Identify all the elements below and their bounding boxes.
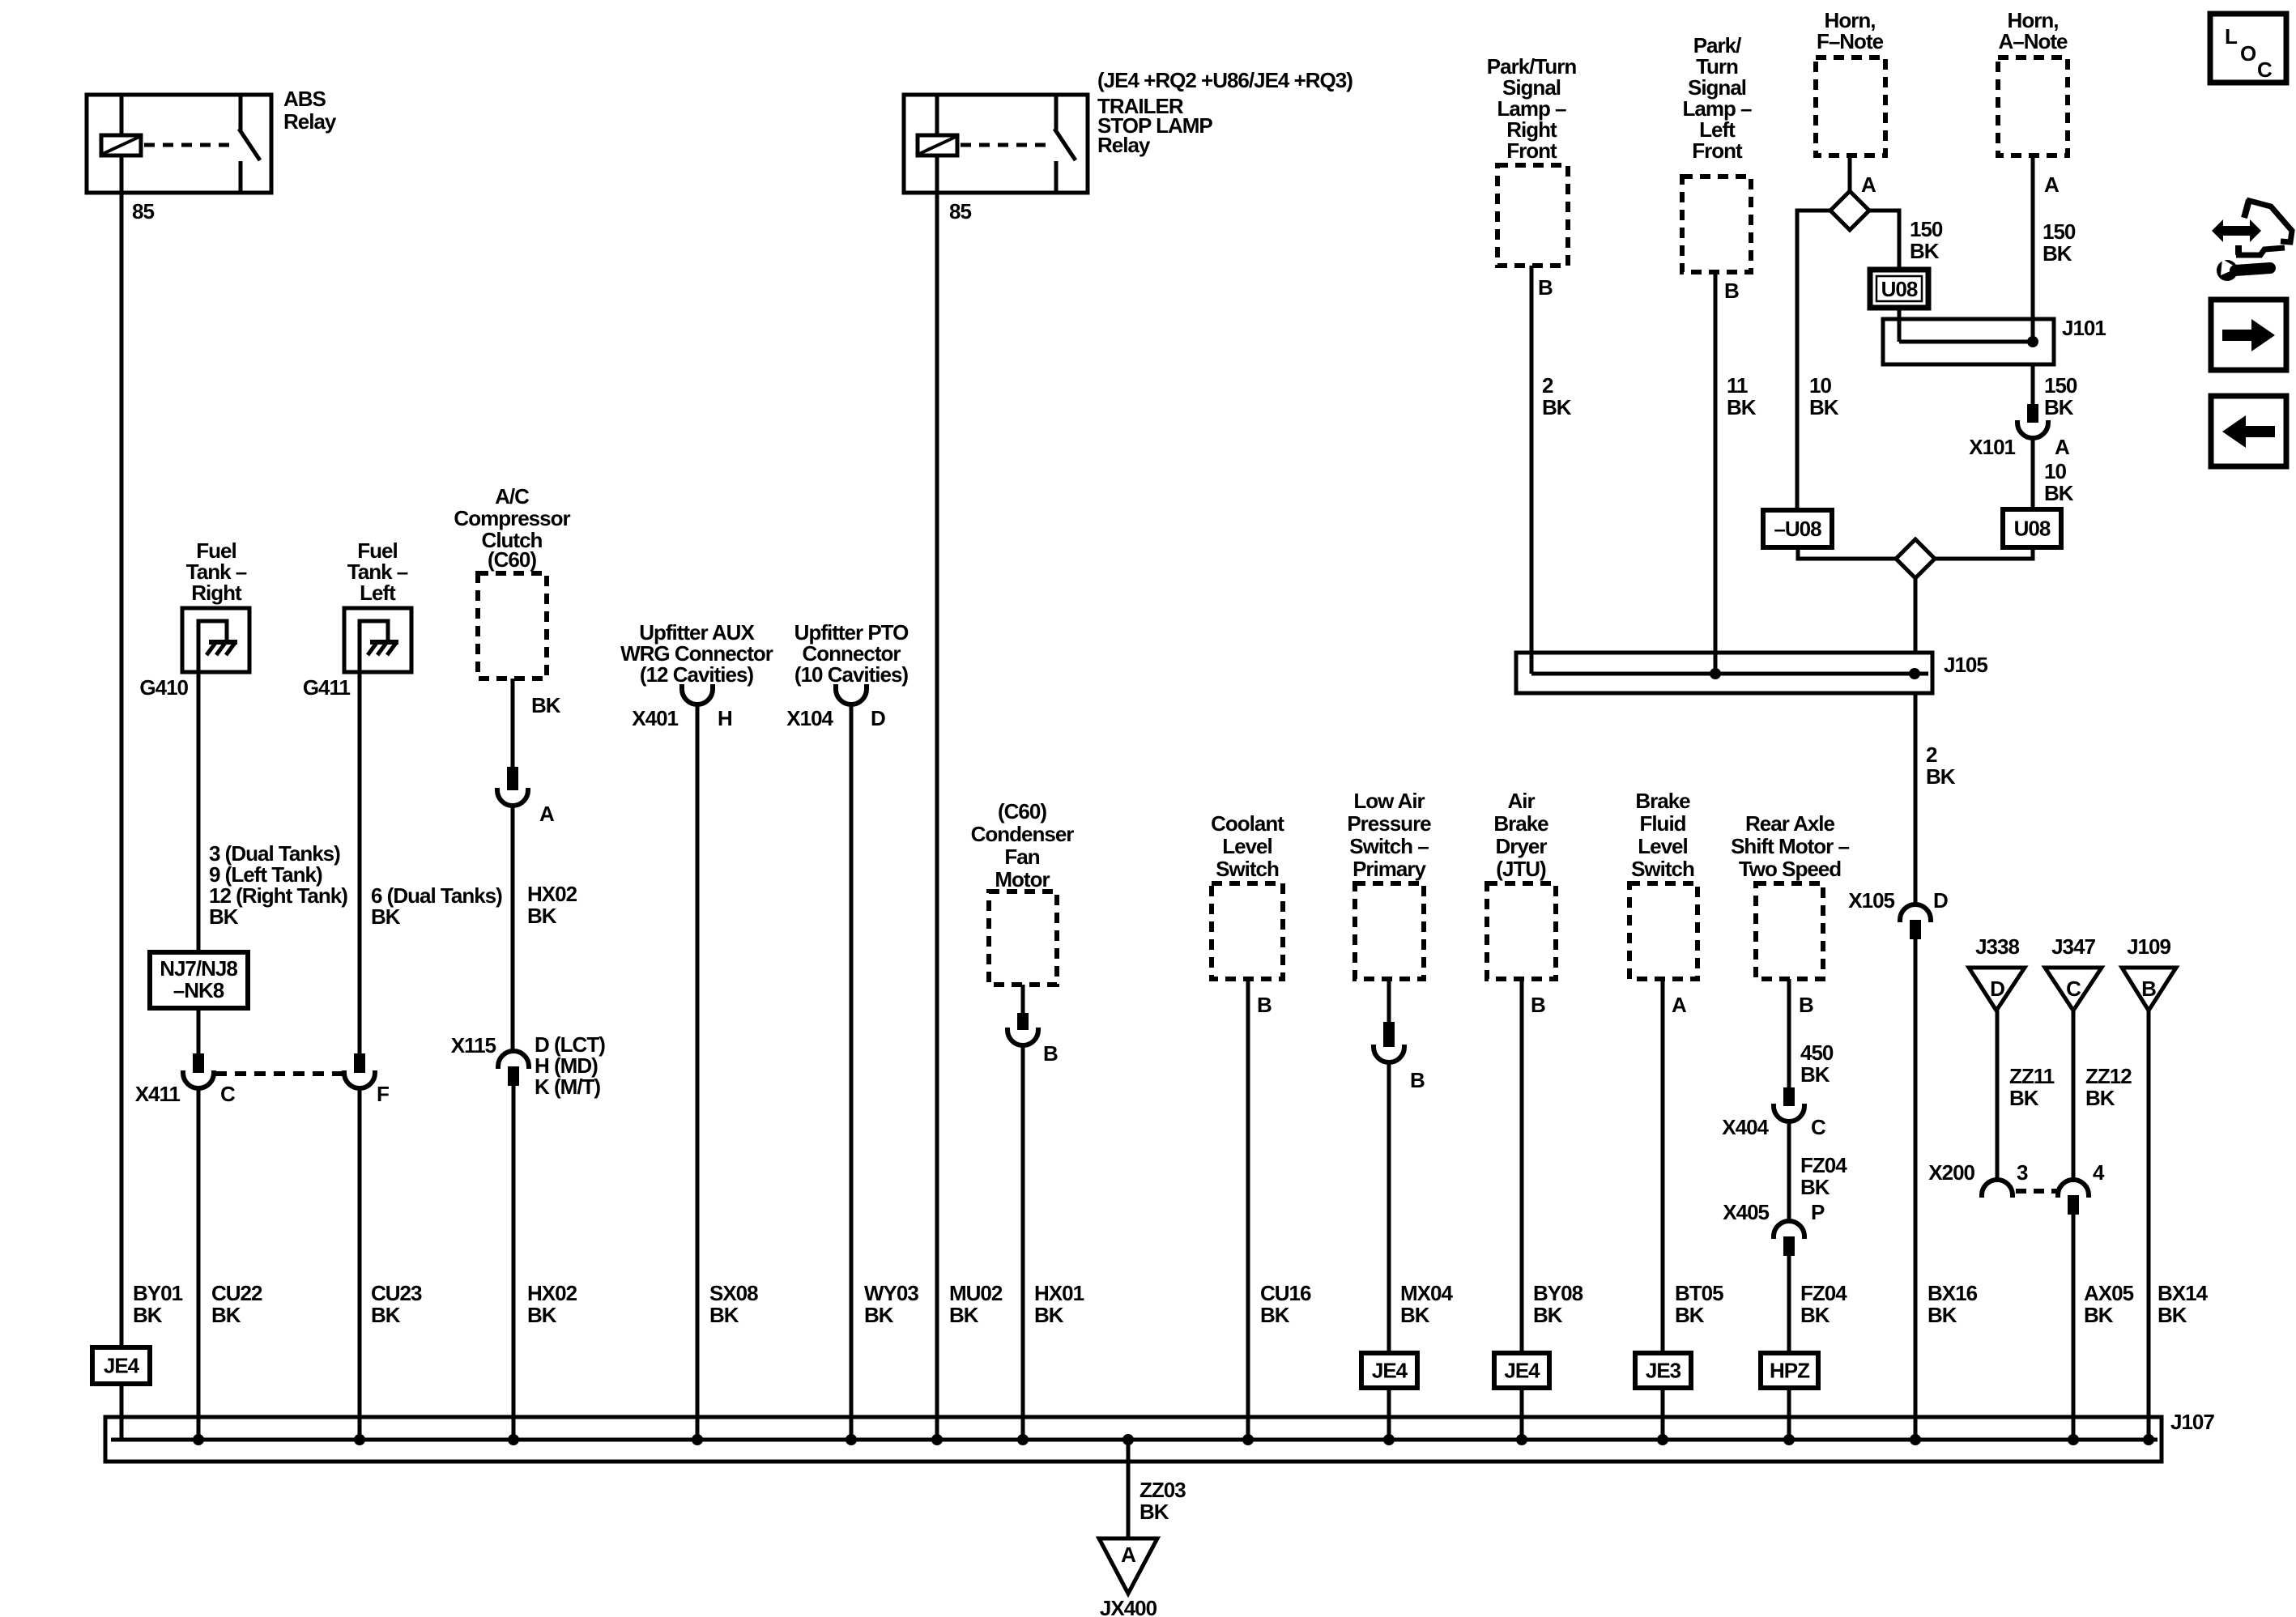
wire BY01 from ABS relay pin 85 to JE4 splice	[120, 193, 124, 1347]
wire 10 BK from diamond to -U08	[1797, 211, 1830, 510]
wire from diamond 2 to J105	[1914, 578, 1918, 653]
component park/turn left front dashed box	[1682, 177, 1751, 272]
wire BX16 from X105 to bus J107	[1914, 939, 1918, 1440]
svg-text:150: 150	[1910, 217, 1943, 241]
ground bus J107 internal bus	[111, 1438, 2158, 1442]
svg-text:BK: BK	[2044, 395, 2074, 419]
svg-text:10: 10	[2044, 459, 2066, 483]
svg-text:Left: Left	[360, 581, 396, 605]
svg-text:JE4: JE4	[1504, 1359, 1540, 1383]
junction dot on J105 (left front lamp)	[1710, 668, 1721, 679]
wire CU16 from coolant switch to bus J107	[1246, 979, 1250, 1440]
relay K ABS coil	[101, 135, 141, 155]
svg-text:Primary: Primary	[1352, 857, 1426, 881]
wire CU23 from G411 to connector X411-F	[358, 672, 362, 1053]
wire HX01 from connector B to bus J107	[1021, 1045, 1025, 1440]
svg-text:Relay: Relay	[283, 109, 337, 134]
svg-text:BX14: BX14	[2158, 1281, 2209, 1305]
svg-text:A: A	[1121, 1543, 1136, 1567]
svg-text:Rear Axle: Rear Axle	[1745, 811, 1835, 836]
svg-text:BK: BK	[209, 904, 239, 929]
connector X404 female arc	[1774, 1104, 1804, 1121]
wire 11 BK from left front lamp to J105	[1714, 272, 1718, 674]
wire from U08 to splice diamond 2	[1935, 547, 2033, 559]
svg-text:X200: X200	[1928, 1160, 1974, 1185]
svg-text:X101: X101	[1969, 435, 2015, 459]
junction dot on J107 at x=1393	[1122, 1434, 1134, 1445]
relay K ABS actuation dashed link	[144, 143, 233, 147]
svg-text:BK: BK	[1910, 239, 1940, 263]
wire 2 BK from J105 to X105	[1914, 693, 1918, 905]
svg-text:450: 450	[1800, 1040, 1834, 1065]
svg-text:150: 150	[2044, 373, 2077, 398]
connector clutch cavity A female arc	[497, 788, 528, 806]
wire FZ04 from X404 to X405	[1787, 1121, 1791, 1222]
svg-text:X105: X105	[1848, 888, 1894, 913]
svg-text:BK: BK	[2009, 1086, 2039, 1110]
svg-text:A: A	[1672, 993, 1687, 1017]
option box U08 (A-note branch)	[2003, 509, 2061, 547]
wire BT05 from switch to JE3	[1661, 979, 1665, 1353]
svg-text:D: D	[1990, 977, 2004, 1001]
svg-text:O: O	[2240, 41, 2256, 66]
svg-text:Front: Front	[1506, 138, 1557, 163]
svg-text:B: B	[1531, 993, 1545, 1017]
in-line harness JX400 triangle	[1099, 1538, 1157, 1594]
svg-text:ZZ03: ZZ03	[1139, 1478, 1186, 1502]
splice pack J101 internal bus	[1899, 340, 2031, 344]
svg-text:Dryer: Dryer	[1496, 834, 1548, 858]
svg-text:BK: BK	[1800, 1303, 1830, 1327]
svg-text:BX16: BX16	[1928, 1281, 1978, 1305]
wire WY03 from X104 to bus J107	[850, 703, 854, 1440]
relay K ABS outer box	[87, 95, 271, 193]
svg-text:C: C	[1811, 1115, 1826, 1139]
svg-text:BK: BK	[709, 1303, 739, 1327]
connector X104 ring cavity D	[836, 684, 867, 704]
svg-text:B: B	[1257, 993, 1272, 1017]
svg-text:NJ7/NJ8: NJ7/NJ8	[160, 956, 237, 981]
junction dot on J107 at x=1715	[1383, 1434, 1395, 1445]
svg-text:X104: X104	[786, 706, 833, 730]
svg-text:JE4: JE4	[1372, 1359, 1408, 1383]
junction dot on J107 at x=2560	[2068, 1434, 2079, 1445]
svg-text:C: C	[2257, 57, 2273, 82]
relay K trailer switch lower pin	[1054, 161, 1059, 193]
svg-text:Switch: Switch	[1631, 857, 1694, 881]
svg-text:X404: X404	[1722, 1115, 1769, 1139]
junction dot on J107 at x=1051	[846, 1434, 857, 1445]
svg-text:BK: BK	[1675, 1303, 1705, 1327]
svg-text:Shift Motor –: Shift Motor –	[1731, 834, 1849, 858]
svg-text:Relay: Relay	[1097, 133, 1151, 157]
wire BY08 from dryer to JE4	[1520, 979, 1524, 1353]
junction dot on J107 at x=2365	[1910, 1434, 1921, 1445]
wire 150 BK from J101 to X101	[2031, 364, 2035, 404]
svg-text:–U08: –U08	[1774, 517, 1821, 541]
relay K trailer stop lamp outer box	[904, 95, 1088, 193]
component horn A-note dashed box	[1998, 57, 2068, 155]
wire from -U08 to splice diamond 2	[1798, 547, 1896, 559]
ground G411 symbol	[360, 621, 388, 670]
svg-text:WY03: WY03	[864, 1281, 918, 1305]
svg-text:F: F	[377, 1082, 389, 1106]
wire AX05 from X200 to bus J107	[2072, 1215, 2076, 1440]
svg-text:D: D	[1933, 888, 1948, 913]
svg-text:FZ04: FZ04	[1800, 1153, 1847, 1177]
svg-text:BK: BK	[1926, 764, 1956, 789]
junction dot on J107 at x=1541	[1242, 1434, 1254, 1445]
svg-text:A: A	[1861, 172, 1876, 197]
wire FZ04 from HPZ to bus J107	[1787, 1388, 1791, 1440]
svg-text:J109: J109	[2127, 934, 2170, 959]
svg-text:BK: BK	[949, 1303, 979, 1327]
junction dot on J107 at x=2053	[1657, 1434, 1668, 1445]
splice package JE4 (on BY08)	[1494, 1353, 1549, 1388]
svg-text:BK: BK	[2084, 1303, 2114, 1327]
svg-text:BK: BK	[1400, 1303, 1430, 1327]
wire 2 BK from right front lamp to J105	[1530, 266, 1534, 674]
wire HX01 from fan motor to connector B	[1021, 985, 1025, 1013]
wire CU22 from NJ7 box to connector X411-C	[197, 1008, 201, 1053]
splice package JE4 (on BY01)	[92, 1347, 150, 1384]
svg-text:Level: Level	[1638, 834, 1688, 858]
connector X200 cavity 3 female arc	[1982, 1180, 2013, 1198]
relay K ABS switch upper pin	[239, 95, 243, 130]
splice diamond (horn F-note)	[1830, 191, 1869, 230]
icon repair double arrow	[2212, 219, 2261, 242]
svg-text:3: 3	[2017, 1160, 2028, 1185]
connector X200 dashed gang line	[2016, 1189, 2057, 1194]
connector X101 female arc	[2017, 420, 2048, 438]
svg-text:C: C	[2066, 977, 2081, 1001]
relay K ABS switch lower pin	[239, 161, 243, 193]
svg-text:X401: X401	[632, 706, 678, 730]
svg-text:P: P	[1811, 1200, 1825, 1224]
relay K trailer coil lower pin	[935, 155, 939, 193]
component park/turn right front dashed box	[1497, 165, 1568, 266]
svg-text:C: C	[220, 1082, 236, 1106]
svg-text:X411: X411	[135, 1082, 181, 1106]
svg-text:FZ04: FZ04	[1800, 1281, 1847, 1305]
relay K ABS coil lower pin	[120, 155, 124, 193]
svg-text:BK: BK	[2044, 481, 2074, 505]
svg-text:BK: BK	[1139, 1500, 1169, 1524]
connector X411 cavity C female arc	[183, 1070, 214, 1088]
ground G410 box (Fuel Tank - Right)	[182, 608, 249, 672]
component A/C compressor clutch dashed box	[478, 573, 547, 679]
junction dot on J107 at x=1263	[1017, 1434, 1029, 1445]
option box U08 (F-note branch)	[1870, 270, 1928, 308]
svg-text:BK: BK	[1800, 1062, 1830, 1087]
connector fan cavity B female arc	[1007, 1028, 1038, 1045]
svg-text:BK: BK	[2043, 241, 2072, 266]
in-line harness J338 triangle	[1969, 968, 2025, 1011]
wire MX04 from connector to JE4	[1387, 1062, 1391, 1353]
in-line harness J347 triangle	[2045, 968, 2102, 1011]
svg-text:(C60): (C60)	[998, 799, 1046, 823]
svg-text:(JTU): (JTU)	[1496, 857, 1546, 881]
connector low-air cavity B male tick	[1383, 1022, 1395, 1047]
junction dot on J107 at x=1157	[931, 1434, 943, 1445]
svg-text:Low Air: Low Air	[1353, 789, 1425, 813]
option box NJ7/NJ8 -NK8	[150, 952, 248, 1008]
icon back arrow	[2222, 415, 2275, 448]
svg-text:150: 150	[2043, 219, 2076, 244]
svg-text:B: B	[1043, 1041, 1058, 1066]
splice diamond 2 (horn ground)	[1896, 539, 1935, 578]
wire SX08 from X401 to bus J107	[696, 703, 700, 1440]
component brake fluid level switch dashed box	[1629, 883, 1698, 979]
svg-text:BK: BK	[1809, 395, 1839, 419]
svg-text:Brake: Brake	[1493, 811, 1548, 836]
splice pack J101 box	[1883, 319, 2054, 364]
svg-text:B: B	[1799, 993, 1813, 1017]
wire 10 BK from X101 to U08	[2031, 438, 2035, 509]
svg-text:CU23: CU23	[371, 1281, 422, 1305]
svg-text:HX02: HX02	[527, 1281, 577, 1305]
svg-text:2: 2	[1926, 743, 1937, 767]
ground G410 symbol	[198, 621, 227, 670]
wire FZ04 from X405 to HPZ	[1787, 1256, 1791, 1353]
svg-text:85: 85	[132, 199, 154, 223]
svg-text:BK: BK	[527, 1303, 557, 1327]
svg-text:Air: Air	[1507, 789, 1535, 813]
svg-text:Fan: Fan	[1004, 845, 1039, 869]
wire HX02 from connector A to X115	[511, 806, 515, 1052]
svg-text:BK: BK	[1928, 1303, 1957, 1327]
junction dot on J105 (horn feed)	[1909, 668, 1920, 679]
svg-text:(12 Cavities): (12 Cavities)	[640, 662, 754, 687]
connector X200 cavity 4 male tick	[2068, 1195, 2079, 1215]
component condenser fan motor dashed box	[989, 891, 1057, 985]
svg-text:X115: X115	[451, 1033, 496, 1057]
svg-text:CU16: CU16	[1260, 1281, 1311, 1305]
splice package JE3 (on BT05)	[1635, 1353, 1691, 1388]
svg-text:Motor: Motor	[995, 867, 1050, 891]
connector X401 ring cavity H	[682, 684, 713, 704]
svg-text:BK: BK	[2158, 1303, 2187, 1327]
connector X115 female arc	[498, 1051, 529, 1069]
svg-text:BK: BK	[371, 1303, 401, 1327]
svg-text:A: A	[2044, 172, 2060, 197]
option box -U08	[1763, 510, 1832, 547]
wire HX02 from X115 to bus J107	[512, 1086, 516, 1440]
svg-text:10: 10	[1809, 373, 1831, 398]
connector X405 female arc	[1774, 1221, 1804, 1239]
svg-text:SX08: SX08	[709, 1281, 758, 1305]
svg-text:BT05: BT05	[1675, 1281, 1723, 1305]
svg-text:G411: G411	[303, 675, 351, 700]
svg-text:Brake: Brake	[1635, 789, 1690, 813]
relay K trailer coil pin wire	[935, 95, 939, 135]
svg-text:U08: U08	[1881, 277, 1918, 301]
wire CU23 from X411 to bus J107	[358, 1088, 362, 1440]
junction dot on J107 at x=861	[692, 1434, 703, 1445]
svg-text:BK: BK	[2085, 1086, 2115, 1110]
connector X411 cavity C male tick	[193, 1053, 204, 1073]
svg-text:2: 2	[1542, 373, 1553, 398]
svg-text:Pressure: Pressure	[1347, 811, 1431, 836]
svg-text:ABS: ABS	[283, 87, 326, 111]
svg-text:J107: J107	[2170, 1410, 2214, 1434]
splice package JE4 (on MX04)	[1361, 1353, 1417, 1388]
svg-text:BY01: BY01	[133, 1281, 183, 1305]
junction dot on J107 at x=245	[193, 1434, 204, 1445]
svg-text:B: B	[1538, 275, 1553, 300]
relay K trailer coil	[918, 135, 957, 155]
component horn F-note dashed box	[1816, 57, 1885, 155]
svg-text:D: D	[871, 706, 885, 730]
svg-text:85: 85	[949, 199, 971, 223]
svg-text:J347: J347	[2051, 934, 2095, 959]
svg-text:MX04: MX04	[1400, 1281, 1453, 1305]
relay K trailer switch upper pin	[1054, 95, 1059, 130]
svg-text:HX01: HX01	[1034, 1281, 1084, 1305]
svg-text:B: B	[1724, 279, 1739, 303]
svg-text:Two Speed: Two Speed	[1739, 857, 1841, 881]
wire ZZ11 from J338 to X200	[1996, 1011, 2000, 1181]
svg-text:BK: BK	[1800, 1175, 1830, 1199]
relay K trailer actuation dashed link	[961, 143, 1049, 147]
connector X101 male tick	[2027, 404, 2038, 423]
wire HX02 from clutch to connector A	[511, 679, 515, 767]
svg-text:BK: BK	[1727, 395, 1757, 419]
icon repair panel outline	[2244, 200, 2249, 218]
connector X411 cavity F female arc	[344, 1070, 375, 1088]
relay K ABS switch blade	[239, 129, 260, 160]
svg-text:Fluid: Fluid	[1639, 811, 1685, 836]
svg-text:Switch: Switch	[1216, 857, 1279, 881]
svg-text:X405: X405	[1723, 1200, 1769, 1224]
svg-text:A–Note: A–Note	[1998, 29, 2068, 53]
svg-text:(C60): (C60)	[488, 547, 536, 572]
connector X411 dashed gang line	[215, 1071, 343, 1076]
relay K trailer switch blade	[1054, 129, 1076, 160]
icon forward arrow box	[2211, 300, 2286, 370]
wire BY01 from JE4 to ground bus J107	[120, 1384, 124, 1440]
svg-text:MU02: MU02	[949, 1281, 1003, 1305]
svg-text:BK: BK	[1533, 1303, 1563, 1327]
svg-text:BK: BK	[531, 693, 561, 717]
connector low-air cavity B female arc	[1374, 1045, 1404, 1062]
svg-text:H: H	[718, 706, 732, 730]
svg-text:BK: BK	[1034, 1303, 1064, 1327]
svg-text:JE3: JE3	[1646, 1359, 1681, 1383]
svg-text:A: A	[2055, 435, 2070, 459]
svg-text:AX05: AX05	[2084, 1281, 2134, 1305]
junction dot on J107 at x=2209	[1783, 1434, 1795, 1445]
wire from U08 into J101	[1898, 308, 1902, 342]
component rear axle shift motor dashed box	[1756, 883, 1823, 979]
svg-text:JE4: JE4	[104, 1354, 140, 1378]
wire 150 BK from horn A-note to J101	[2031, 155, 2035, 342]
svg-text:Front: Front	[1692, 138, 1743, 163]
svg-text:Switch –: Switch –	[1349, 834, 1429, 858]
wire BT05 from JE3 to bus J107	[1661, 1388, 1665, 1440]
svg-text:Level: Level	[1222, 834, 1272, 858]
wire MX04 from switch to connector B	[1387, 979, 1391, 1022]
wire ZZ03 from bus J107 to JX400	[1127, 1440, 1131, 1538]
wire MX04 from JE4 to bus J107	[1387, 1388, 1391, 1440]
svg-text:J101: J101	[2062, 316, 2106, 340]
ground G411 box (Fuel Tank - Left)	[344, 608, 411, 672]
wire BX14 from J109 to bus J107	[2147, 1011, 2151, 1440]
wire ZZ12 from J347 to X200	[2072, 1011, 2076, 1181]
icon back arrow box	[2211, 396, 2286, 466]
connector X200 cavity 4 female arc	[2058, 1180, 2089, 1198]
svg-text:K (M/T): K (M/T)	[535, 1074, 600, 1099]
junction dot on J107 at x=444	[354, 1434, 365, 1445]
relay K ABS coil pin wire	[120, 95, 124, 135]
svg-text:J105: J105	[1944, 653, 1987, 677]
svg-text:BK: BK	[1260, 1303, 1290, 1327]
junction dot on J107 at x=1879	[1516, 1434, 1527, 1445]
junction dot on J101 (A-note wire)	[2027, 336, 2038, 347]
icon LOC box	[2210, 14, 2286, 83]
svg-text:(JE4 +RQ2 +U86/JE4 +RQ3): (JE4 +RQ2 +U86/JE4 +RQ3)	[1097, 68, 1352, 92]
connector clutch cavity A male tick	[507, 767, 518, 790]
connector X105 male tick	[1910, 920, 1921, 939]
svg-text:J338: J338	[1975, 934, 2019, 959]
svg-text:4: 4	[2093, 1160, 2105, 1185]
svg-text:BY08: BY08	[1533, 1281, 1583, 1305]
wire BY08 from JE4 to bus J107	[1520, 1388, 1524, 1440]
svg-text:F–Note: F–Note	[1817, 29, 1884, 53]
svg-text:–NK8: –NK8	[173, 978, 224, 1002]
svg-text:Compressor: Compressor	[454, 506, 570, 530]
connector X405 male tick	[1783, 1236, 1795, 1256]
ground bus J107 box	[105, 1417, 2162, 1462]
svg-text:B: B	[1410, 1068, 1425, 1092]
splice package HPZ (on FZ04)	[1761, 1353, 1818, 1388]
svg-text:HPZ: HPZ	[1770, 1359, 1810, 1383]
in-line harness J109 triangle	[2122, 968, 2176, 1011]
connector X105 female arc	[1900, 904, 1931, 922]
svg-text:BK: BK	[211, 1303, 241, 1327]
connector X411 cavity F male tick	[354, 1053, 365, 1073]
svg-text:Coolant: Coolant	[1211, 811, 1284, 836]
svg-text:B: B	[2141, 977, 2156, 1001]
wire 150 BK from diamond to U08	[1869, 211, 1899, 270]
wire 450 BK from motor to X404	[1787, 979, 1791, 1087]
svg-text:A/C: A/C	[495, 484, 530, 509]
svg-text:BK: BK	[527, 904, 557, 928]
svg-text:(10 Cavities): (10 Cavities)	[794, 662, 909, 687]
connector fan cavity B male tick	[1017, 1013, 1029, 1030]
svg-text:HX02: HX02	[527, 882, 577, 906]
junction dot on J107 at x=2653	[2143, 1434, 2154, 1445]
svg-text:BK: BK	[133, 1303, 163, 1327]
component low air pressure switch dashed box	[1355, 883, 1424, 979]
splice pack J105 box	[1516, 653, 1932, 693]
component coolant level switch dashed box	[1212, 883, 1283, 979]
svg-text:Right: Right	[191, 581, 242, 605]
svg-text:G410: G410	[139, 675, 188, 700]
svg-text:BK: BK	[371, 904, 401, 929]
wire CU22 from X411 to bus J107	[197, 1088, 201, 1440]
icon repair wrench	[2217, 260, 2238, 281]
junction dot on J107 at x=634	[508, 1434, 519, 1445]
svg-text:Condenser: Condenser	[971, 822, 1075, 846]
component air brake dryer dashed box	[1487, 883, 1556, 979]
svg-text:L: L	[2225, 24, 2238, 49]
wire MU02 from trailer relay pin 85 to bus J107	[935, 193, 939, 1440]
svg-text:BK: BK	[864, 1303, 894, 1327]
svg-text:U08: U08	[2014, 517, 2051, 541]
svg-text:A: A	[539, 802, 555, 826]
splice pack J105 internal bus	[1531, 672, 1928, 676]
